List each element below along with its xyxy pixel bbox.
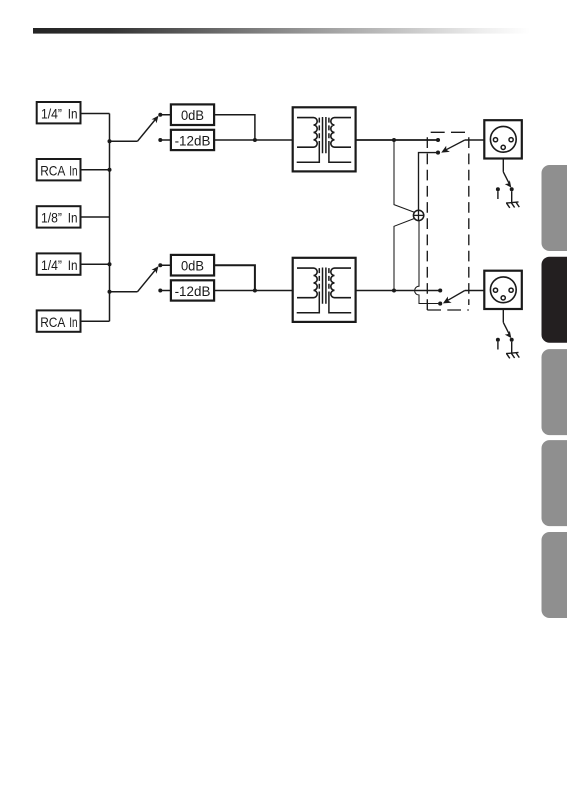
switch SW6 ground lift lever (ch2) [503,322,511,338]
attenuator box 0dB (ch2) [171,255,214,276]
junction dot bus tap channel 2 [108,290,112,294]
wire dot to 0dB box (ch1) [160,114,171,116]
wire -12dB output (ch1) [214,139,293,141]
input jack box RCA In (J5) [37,310,81,331]
summing node circle-plus [413,210,424,220]
XLR output connector XLR1 [484,120,522,158]
side tab 2 (active) [542,257,567,343]
chassis ground symbol (ch1) [506,202,519,208]
svg-text:1/4”In: 1/4”In [41,106,78,122]
input jack box 1/8" In (J3) [37,206,81,227]
wire ground contact to chassis ground (ch2) [511,342,513,353]
node dot XLR switch direct (ch2) [438,288,442,292]
input jack box RCA In (J2) [37,159,81,180]
header gradient rule [33,28,531,34]
junction dot T2 output sum tap [392,289,396,293]
transformer T1 [293,107,356,171]
wire bus tap to switch SW1 [110,140,138,142]
node dot ground lift open (ch1) [496,187,500,191]
junction dot bus tap channel 1 [108,139,112,143]
node dot XLR switch summed (ch2) [438,302,442,306]
wire sum output up to ch1 switch [419,153,437,211]
junction dot T1 output sum tap [392,138,396,142]
wire 0dB output loop (ch1) [214,115,255,140]
junction dot attenuator merge (ch2) [253,289,257,293]
dashed mono-switch boundary box [427,132,469,310]
wire XLR1 to ground-lift switch [502,159,504,172]
junction dot attenuator merge (ch1) [253,138,257,142]
switch SW1 lever with arrow [137,116,158,142]
chassis ground symbol (ch2) [506,352,519,358]
svg-text:1/4”In: 1/4”In [41,257,78,273]
wire -12dB output (ch2) [214,290,293,292]
switch SW3 ground lift lever (ch1) [503,172,511,188]
junction dot bus at J2 [108,168,112,172]
wire ground contact to chassis ground (ch1) [511,191,513,202]
side tab 1 [542,165,567,251]
svg-text:0dB: 0dB [181,107,204,123]
input jack box 1/4" In (J4) [37,253,81,274]
wire XLR select pivot to XLR2 [465,290,485,292]
switch SW5 lever XLR select (ch2) [443,291,465,304]
side tab 4 [542,440,567,526]
wire T1 output to XLR switch (ch1) [356,139,438,141]
svg-text:1/8”In: 1/8”In [41,210,78,226]
wire input bus vertical [109,114,111,322]
wire T2 output to XLR switch (ch2) [356,290,441,292]
switch SW2 lever XLR select (ch1) [441,140,465,153]
node dot 0dB input (ch1) [158,113,162,117]
wire XLR select pivot to XLR1 [465,139,485,141]
svg-text:RCAIn: RCAIn [40,314,77,330]
node dot 0dB input (ch2) [158,263,162,267]
wire sum output down to ch2 switch (with hop) [415,221,439,304]
node dot XLR switch direct (ch1) [436,138,440,142]
svg-text:RCAIn: RCAIn [40,162,77,178]
attenuator box -12dB (ch1) [171,130,214,150]
wire dot to -12dB box (ch1) [160,139,171,141]
node dot XLR switch summed (ch1) [436,151,440,155]
wire dot to 0dB box (ch2) [160,264,171,266]
XLR output connector XLR2 [484,271,522,309]
node dot ground lift grounded (ch2) [510,338,514,342]
side tab 5 [542,532,567,618]
wire XLR2 to ground-lift switch [502,309,504,322]
wire bus tap to switch SW4 (ch2) [110,291,138,293]
node dot -12dB input (ch2) [158,289,162,293]
wire sum feed from ch1 [394,140,414,212]
transformer T2 [293,258,356,322]
wire dot to -12dB box (ch2) [160,290,171,292]
svg-text:0dB: 0dB [181,258,204,274]
side tab 3 [542,349,567,435]
node dot -12dB input (ch1) [158,138,162,142]
svg-text:-12dB: -12dB [175,283,211,299]
wire sum feed from ch2 [394,219,414,291]
stub wire ground lift open contact (ch2) [497,342,499,350]
node dot ground lift open (ch2) [496,338,500,342]
attenuator box -12dB (ch2) [171,280,214,300]
switch SW4 lever with arrow (ch2) [137,266,158,292]
wire J2 to bus [81,169,110,171]
svg-text:-12dB: -12dB [175,133,211,149]
wire 0dB output loop (ch2) [214,265,255,290]
wire J4 to bus [81,263,110,265]
wire J1 to bus [81,113,110,115]
stub wire ground lift open contact (ch1) [497,191,499,199]
junction dot bus at J4 [108,262,112,266]
wire J5 to bus [81,320,110,322]
attenuator box 0dB (ch1) [171,104,214,125]
node dot ground lift grounded (ch1) [510,187,514,191]
wire J3 to bus [81,216,110,218]
input jack box 1/4" In (J1) [37,102,81,123]
